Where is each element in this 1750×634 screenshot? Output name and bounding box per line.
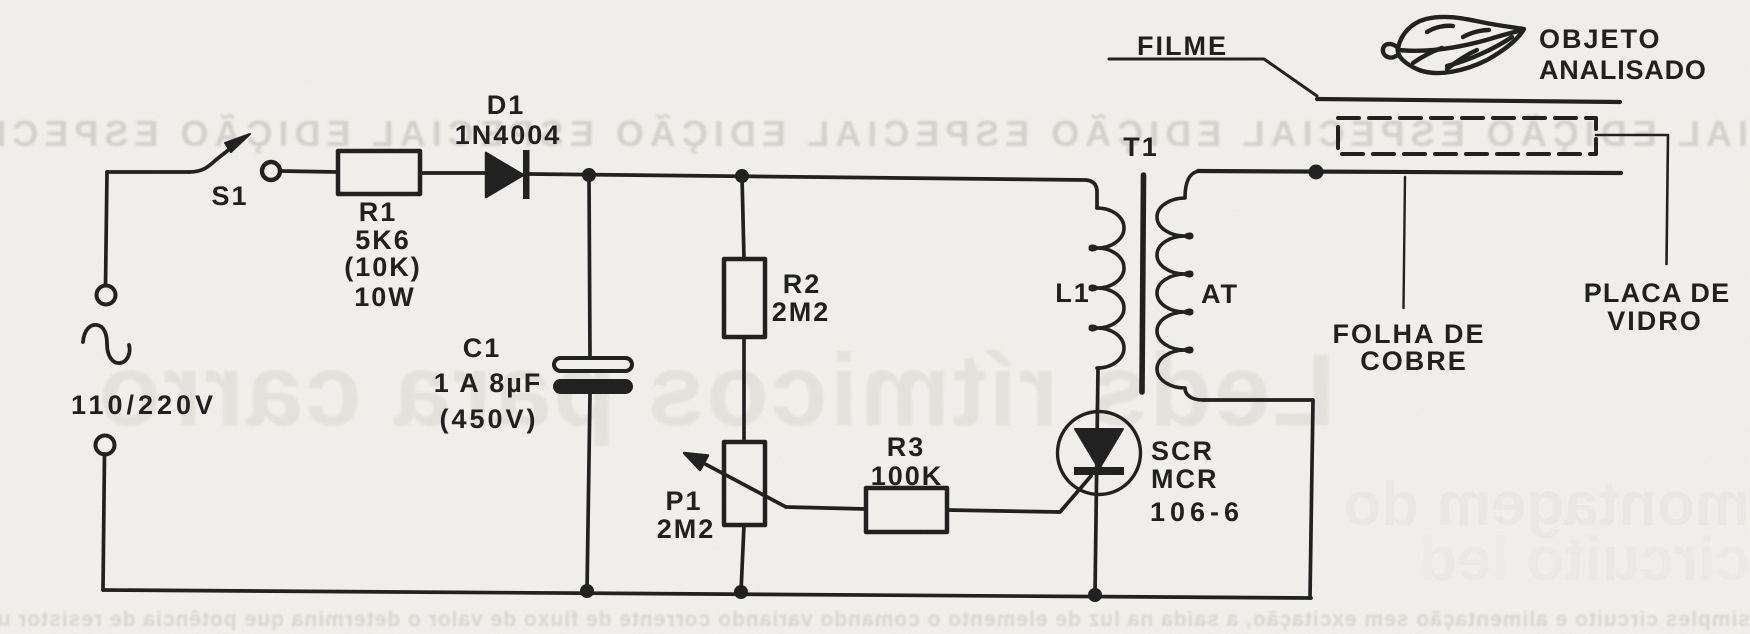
wire: AT bottom to right vertical bbox=[1203, 400, 1313, 598]
wire: AC source to bottom rail bbox=[103, 454, 105, 590]
wire: P1 bottom lead bbox=[741, 525, 744, 592]
capacitor C1 top plate bbox=[554, 358, 632, 371]
wire: C1 vertical top bbox=[589, 175, 590, 358]
switch S1 arm bbox=[189, 141, 240, 172]
wire: R1 to D1 bbox=[420, 171, 486, 175]
node: SCR cathode junction bbox=[1089, 589, 1102, 602]
resistor R3 bbox=[866, 488, 947, 532]
potentiometer P1 wiper line bbox=[692, 457, 786, 507]
wire: copper foil line (AT top output) bbox=[1198, 171, 1621, 173]
wire: R2 top lead bbox=[742, 176, 744, 259]
potentiometer P1 body bbox=[724, 442, 765, 525]
wire: top-left horizontal to switch bbox=[107, 170, 189, 174]
wire: P1 wiper to R3 bbox=[786, 507, 866, 509]
bleed-through text bottom band bbox=[0, 608, 1750, 631]
pointer line PLACA DE VIDRO bbox=[1596, 135, 1668, 264]
transformer T1 core bbox=[1142, 175, 1144, 392]
resistor R1 bbox=[338, 151, 420, 194]
film line bbox=[1317, 99, 1620, 102]
node: copper foil junction bbox=[1309, 165, 1323, 179]
SCR triangle bbox=[1075, 429, 1123, 469]
wire: C1 vertical bottom bbox=[587, 394, 590, 591]
terminal node after switch bbox=[262, 162, 280, 180]
leaf drawing (objeto analisado) bbox=[1383, 17, 1524, 73]
switch S1 arrowhead bbox=[225, 134, 250, 152]
node: P1 bottom junction bbox=[735, 586, 748, 599]
capacitor C1 bottom plate bbox=[553, 379, 633, 394]
transformer T1 primary winding L1 bbox=[1090, 208, 1124, 368]
bleed-through text right lower bbox=[1344, 470, 1750, 594]
resistor R2 bbox=[724, 259, 765, 337]
wire: R2 to P1 bbox=[742, 337, 746, 442]
AC source bottom terminal bbox=[96, 436, 115, 455]
potentiometer P1 wiper arrowhead bbox=[684, 453, 708, 470]
node: R2 top junction bbox=[736, 170, 749, 183]
node: C1 top junction bbox=[583, 169, 596, 182]
AC source top terminal bbox=[97, 286, 116, 305]
wire: R3 to SCR gate bbox=[947, 476, 1091, 512]
pointer line FOLHA DE COBRE bbox=[1404, 177, 1406, 308]
transformer T1 secondary winding AT bbox=[1157, 171, 1203, 400]
AC source sine squiggle bbox=[83, 325, 130, 363]
FILME underline and pointer bbox=[1109, 59, 1317, 96]
bleed-through headline middle bbox=[97, 333, 1335, 447]
SCR body circle bbox=[1058, 412, 1141, 495]
wire: switch terminal to R1 bbox=[280, 171, 338, 172]
node: C1 bottom junction bbox=[581, 585, 594, 598]
diode D1 bbox=[486, 150, 530, 199]
wire: bottom rail bbox=[103, 590, 1311, 598]
bleed-through text top band bbox=[0, 112, 1750, 154]
SCR cathode bar bbox=[1074, 467, 1124, 475]
wire: left vertical to AC source bbox=[106, 172, 108, 286]
wire: top rail D1 to transformer bbox=[530, 174, 1097, 208]
wire: SCR anode/cathode vertical bbox=[1095, 368, 1098, 595]
glass plate dashed rectangle bbox=[1338, 118, 1596, 154]
